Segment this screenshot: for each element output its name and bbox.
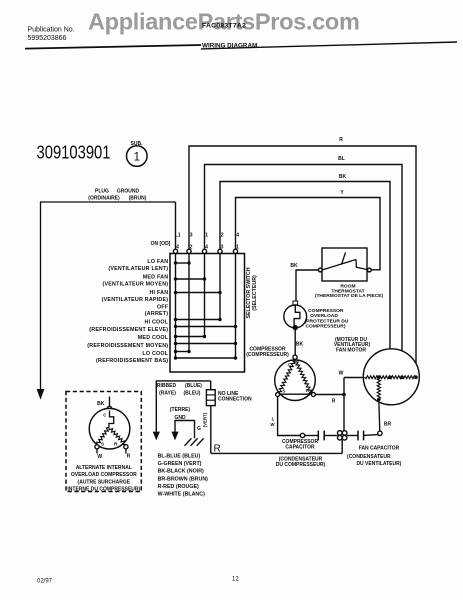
fan capacitor C2 <box>357 431 359 441</box>
thermostat contact right <box>367 268 371 272</box>
svg-text:1: 1 <box>236 245 239 251</box>
svg-text:BK: BK <box>97 401 105 407</box>
wire R compressor to junction <box>315 394 344 396</box>
svg-text:5995203866: 5995203866 <box>28 35 67 42</box>
svg-text:DU VENTILATEUR): DU VENTILATEUR) <box>356 461 401 467</box>
wire green lead <box>194 420 196 438</box>
selector switch U1 box <box>170 254 245 373</box>
wire plug line lead with arrow <box>40 201 42 390</box>
svg-text:2: 2 <box>190 245 193 251</box>
fan capacitor terminal <box>378 431 382 435</box>
wire selector HI COOL comp row <box>176 326 236 328</box>
title underline <box>201 42 457 49</box>
junction terminal block <box>338 431 343 436</box>
chassis ground symbol <box>185 438 192 445</box>
svg-text:02/97: 02/97 <box>37 579 53 585</box>
wire selector column 1 <box>175 254 177 359</box>
svg-text:W: W <box>270 422 275 427</box>
svg-text:(TERRE): (TERRE) <box>170 407 191 413</box>
svg-text:W-WHITE (BLANC): W-WHITE (BLANC) <box>158 492 205 498</box>
header rule <box>25 45 201 49</box>
svg-text:OFF: OFF <box>157 304 169 310</box>
wire selector HI FAN row <box>176 292 221 294</box>
wire junction to fan capacitor <box>347 435 358 437</box>
svg-text:BK: BK <box>296 342 304 348</box>
compressor motor M1 <box>275 360 316 401</box>
wire L1 to plug <box>175 202 177 249</box>
svg-text:Publication No.: Publication No. <box>28 27 75 34</box>
svg-text:FAC083T7A2: FAC083T7A2 <box>202 23 246 30</box>
fan motor M2 <box>363 349 419 405</box>
wire BK overload to compressor <box>294 330 296 356</box>
svg-text:G: G <box>197 426 201 432</box>
wire selector column 3 <box>204 254 206 337</box>
svg-text:3: 3 <box>190 233 193 239</box>
svg-text:12: 12 <box>232 577 239 583</box>
wire terminal to compressor capacitor <box>305 435 318 437</box>
wire W fan common <box>344 377 364 379</box>
svg-text:G-GREEN (VERT): G-GREEN (VERT) <box>158 461 202 467</box>
svg-text:HI FAN: HI FAN <box>149 290 168 296</box>
selector terminal pin 2/3 <box>218 249 222 253</box>
svg-text:R: R <box>339 137 343 143</box>
wire plug top edge <box>41 201 176 203</box>
svg-text:(COMPRESSEUR): (COMPRESSEUR) <box>246 352 289 358</box>
compressor overload OL1 <box>293 301 298 305</box>
svg-text:W: W <box>97 454 102 460</box>
wire selector MED FAN row <box>176 278 205 280</box>
svg-text:PLUG: PLUG <box>95 189 109 195</box>
svg-text:ON [OD]: ON [OD] <box>151 241 171 247</box>
svg-text:(CONDENSATEUR: (CONDENSATEUR <box>347 454 391 460</box>
svg-text:R: R <box>214 444 221 455</box>
wire ground lead with arrow <box>174 420 176 432</box>
wire ribbed lead with arrow <box>155 380 157 432</box>
wire selector LO COOL fan row <box>176 351 190 353</box>
svg-text:(RAYE): (RAYE) <box>159 391 176 397</box>
selector terminal pin 1/4 <box>202 249 206 253</box>
svg-text:DU COMPRESSEUR): DU COMPRESSEUR) <box>276 462 326 468</box>
svg-text:(ORDINAIRE): (ORDINAIRE) <box>88 195 120 201</box>
wire W compressor S to capacitor <box>278 397 301 436</box>
svg-text:(REFROIDISSEMENT MOYEN): (REFROIDISSEMENT MOYEN) <box>87 343 168 349</box>
svg-text:2: 2 <box>221 233 224 239</box>
svg-text:(VENTILATEUR LENT): (VENTILATEUR LENT) <box>108 266 168 272</box>
alternate overload dashed box <box>66 392 141 492</box>
junction node <box>342 393 346 397</box>
svg-text:Y: Y <box>340 190 344 196</box>
svg-text:BR-BROWN (BRUN): BR-BROWN (BRUN) <box>158 476 209 482</box>
wire selector column 4 <box>219 254 221 320</box>
wire Y (selector 4 to thermostat) <box>236 198 381 270</box>
wire junction down stub <box>341 440 343 454</box>
svg-text:(THERMOSTAT DE LA PIECE): (THERMOSTAT DE LA PIECE) <box>315 293 384 299</box>
fan winding tap nodes <box>377 375 381 379</box>
svg-text:BL: BL <box>338 156 345 162</box>
svg-text:4: 4 <box>236 233 239 239</box>
fan auxiliary winding <box>377 378 380 400</box>
svg-text:(ARRET): (ARRET) <box>145 311 169 317</box>
room thermostat box <box>322 248 367 281</box>
svg-text:(BRUN): (BRUN) <box>129 195 147 201</box>
svg-text:W: W <box>339 370 344 376</box>
svg-text:R: R <box>127 454 131 460</box>
wire fan capacitor to terminal <box>364 434 379 437</box>
svg-text:3: 3 <box>221 245 224 251</box>
no line connection block <box>206 390 215 406</box>
wire R (selector 3 to fan motor) <box>189 146 416 377</box>
wire selector LO COOL comp row <box>176 357 236 359</box>
svg-text:HI COOL: HI COOL <box>144 320 168 326</box>
capacitor terminal <box>300 433 304 437</box>
svg-text:309103901: 309103901 <box>37 142 111 163</box>
svg-text:(REFROIDISSEMENT BAS): (REFROIDISSEMENT BAS) <box>96 358 168 364</box>
selector terminal pin 3/2 <box>187 249 191 253</box>
svg-text:BK: BK <box>290 263 298 269</box>
svg-text:(SELECTEUR): (SELECTEUR) <box>252 275 258 311</box>
wire R return line <box>211 452 342 454</box>
svg-text:(VERT): (VERT) <box>203 412 208 427</box>
svg-text:4: 4 <box>205 245 208 251</box>
svg-text:COMPRESSEUR): COMPRESSEUR) <box>306 324 346 330</box>
compressor capacitor C1 <box>317 431 319 441</box>
svg-text:R: R <box>114 442 118 448</box>
svg-text:(BLUE): (BLUE) <box>185 383 202 389</box>
svg-text:INTERNE DU COMPRESSEUR): INTERNE DU COMPRESSEUR) <box>67 486 140 492</box>
wire BK alternate overload lead <box>109 397 111 407</box>
wire selector column 5 <box>235 254 237 359</box>
svg-text:(BLEU): (BLEU) <box>184 391 201 397</box>
svg-text:(PROTECTEUR DU: (PROTECTEUR DU <box>305 318 349 324</box>
wire cord bracket <box>156 380 210 382</box>
svg-text:S: S <box>283 388 286 393</box>
svg-text:1: 1 <box>272 416 275 421</box>
svg-text:4: 4 <box>176 245 179 251</box>
wire capacitor to junction <box>324 435 337 437</box>
wire ground bracket <box>175 420 195 422</box>
svg-text:MED FAN: MED FAN <box>143 275 169 281</box>
svg-text:BR: BR <box>384 422 392 428</box>
svg-text:OVERLOAD: OVERLOAD <box>310 313 338 319</box>
wire selector LO FAN row <box>176 262 190 264</box>
svg-text:RIBBED: RIBBED <box>157 383 177 389</box>
svg-text:1: 1 <box>134 152 140 164</box>
svg-text:FAN CAPACITOR: FAN CAPACITOR <box>359 445 400 451</box>
thermostat contact left <box>318 268 322 272</box>
svg-text:LO COOL: LO COOL <box>142 351 168 357</box>
wire BK thermostat to overload <box>296 269 318 271</box>
svg-text:BK-BLACK (NOIR): BK-BLACK (NOIR) <box>158 469 204 475</box>
svg-text:FAN MOTOR: FAN MOTOR <box>336 347 366 353</box>
svg-text:(REFROIDISSEMENT ELEVE): (REFROIDISSEMENT ELEVE) <box>89 327 168 333</box>
wire BK (selector 2 to fan motor) <box>220 182 390 378</box>
svg-text:AppliancePartsPros.com: AppliancePartsPros.com <box>88 9 360 35</box>
selector terminal pin L1/4 <box>173 249 177 253</box>
svg-text:CONNECTION: CONNECTION <box>218 397 252 403</box>
svg-text:CAPACITOR: CAPACITOR <box>285 444 315 450</box>
svg-text:LO FAN: LO FAN <box>147 259 168 265</box>
svg-text:(VENTILATEUR MOYEN): (VENTILATEUR MOYEN) <box>102 282 168 288</box>
svg-text:MED COOL: MED COOL <box>138 335 169 341</box>
thermostat switch blade <box>322 260 356 271</box>
svg-text:BK: BK <box>339 174 347 180</box>
selector terminal pin 4/1 <box>233 249 237 253</box>
wire selector HI COOL fan row <box>176 319 221 321</box>
svg-text:(VENTILATEUR RAPIDE): (VENTILATEUR RAPIDE) <box>102 297 169 303</box>
svg-text:R-RED (ROUGE): R-RED (ROUGE) <box>158 484 199 490</box>
alternate compressor M3 <box>107 406 111 410</box>
wire BL (selector 1 to fan motor) <box>205 165 403 378</box>
svg-text:COMPRESSOR: COMPRESSOR <box>308 308 344 314</box>
wire R cord drop <box>210 381 212 390</box>
wire selector column 2 <box>188 254 190 352</box>
wire selector MED COOL comp row <box>176 343 236 345</box>
wire selector MED COOL fan row <box>176 336 205 338</box>
svg-text:R: R <box>332 398 336 404</box>
svg-text:BL-BLUE (BLEU): BL-BLUE (BLEU) <box>158 453 201 459</box>
svg-text:ALTERNATE INTERNAL: ALTERNATE INTERNAL <box>76 465 132 471</box>
svg-text:C: C <box>288 362 291 367</box>
svg-text:OVERLOAD COMPRESSOR: OVERLOAD COMPRESSOR <box>71 472 137 478</box>
svg-text:GROUND: GROUND <box>117 189 140 195</box>
svg-text:(AUTRE SURCHARGE: (AUTRE SURCHARGE <box>78 479 131 485</box>
svg-text:1: 1 <box>205 233 208 239</box>
